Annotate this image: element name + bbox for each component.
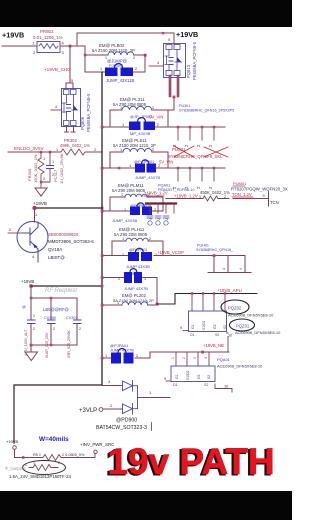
small caps under PQA01 [147,216,169,218]
svg-text:PR802: PR802 [40,29,54,34]
highlight ellipse around alt resistor [23,461,66,475]
svg-text:2: 2 [52,173,54,177]
svg-text:D1: D1 [190,333,195,337]
svg-text:+19VB_1.2V: +19VB_1.2V [144,191,168,196]
gate pin 4 stub PQ806 [51,109,61,111]
svg-text:ENLDO_3V5V: ENLDO_3V5V [14,146,45,151]
resistor PR802 0.01_1206_1% (4-terminal sense) [33,29,65,55]
junction on bus row B [101,126,104,129]
wire row A right vertical [133,55,145,72]
wire to +19VB_APU rail [157,294,257,305]
capacitor PC317 1U_0402_25V6K (vertical) [47,152,65,184]
svg-text:PU301: PU301 [179,104,190,108]
junction +19VB caps [29,284,32,287]
svg-text:S2: S2 [207,375,211,379]
svg-text:19v PATH: 19v PATH [108,441,275,482]
junction [40,151,43,154]
resistor R5 0.005_5% (sense, top) [33,453,91,461]
dual MOSFET box 2 PQA01 ACE6906 [164,366,232,392]
svg-text:PR300: PR300 [27,168,32,181]
svg-text:1: 1 [122,237,124,241]
svg-text:JUMP_43X3B: JUMP_43X3B [112,218,137,223]
svg-text:X5R_025_25V6K: X5R_025_25V6K [67,330,71,358]
inductor PLB02 5A Z150 20M 1210_2P [92,43,145,60]
svg-text:+19VB: +19VB [21,279,34,284]
svg-text:1: 1 [122,253,124,257]
inductor PL202 5A Z150 20M 1210_2P (row G) [102,293,157,305]
svg-text:ACE6906_DFN5X6E8-10: ACE6906_DFN5X6E8-10 [235,330,281,335]
svg-text:5A Z90 20M 0805: 5A Z90 20M 0805 [114,232,148,237]
svg-text:+19VB: +19VB [33,201,47,206]
pin stubs into FET box 1 [192,294,225,312]
svg-text:SY8368RHC_QFN16_: SY8368RHC_QFN16_ [196,248,234,252]
svg-text:S2: S2 [223,325,227,329]
svg-text:CV398: CV398 [44,316,56,320]
wire to +INV_PWR_SRC [87,454,95,458]
gate pin 4 stub PQ813 [149,65,163,67]
diode PD900-B (BAT54CW) [123,404,133,415]
junction [33,206,36,209]
junction [49,151,52,154]
svg-text:2: 2 [152,106,154,110]
row B: wire box [102,110,225,127]
wire to ground [41,182,50,188]
svg-text:G2: G2 [197,374,201,379]
svg-text:…: … [219,352,223,357]
wire +19VB into PR802 [2,45,37,47]
svg-text:1: 1 [35,213,37,217]
svg-text:JUMP_43X7B: JUMP_43X7B [135,175,160,180]
node junction at x70 (+19VB_CHG tap) [69,45,72,48]
svg-text:9: 9 [263,194,265,198]
svg-text:PQA01: PQA01 [217,357,231,362]
svg-text:PUM01: PUM01 [233,181,247,186]
svg-text:+19VB_APU: +19VB_APU [217,288,242,293]
svg-text:2: 2 [157,123,159,127]
svg-text:5A Z90 20M 0805: 5A Z90 20M 0805 [112,188,146,193]
svg-text:1: 1 [117,301,119,305]
main vertical bus [101,72,103,385]
svg-text:RT8207PGQW_WQFN20_3X: RT8207PGQW_WQFN20_3X [231,187,288,192]
svg-text:JUMP 43X7B: JUMP 43X7B [124,286,148,291]
svg-text:4: 4 [55,105,57,109]
svg-text:499K_0402_1%: 499K_0402_1% [60,143,90,148]
svg-text:CV397: CV397 [66,316,78,320]
svg-text:2: 2 [118,277,120,281]
svg-text:2: 2 [53,327,55,331]
svg-text:1: 1 [124,208,126,212]
svg-text:ACE6906_DFN5X6E8-10: ACE6906_DFN5X6E8-10 [217,364,263,369]
svg-text:SB0000099920: SB0000099920 [48,232,79,237]
svg-text:4: 4 [157,61,159,65]
junction on bus row E [101,254,104,257]
junction [201,351,204,354]
svg-text:PQA01: PQA01 [158,184,170,188]
dual MOSFET box 1 (battery FETs) [180,311,232,352]
capacitor CV399 [22,305,35,356]
svg-text:®_footprint: ®_footprint [5,466,26,471]
svg-text:PQZ01: PQZ01 [236,324,250,329]
svg-text:+19VB: +19VB [6,439,18,444]
svg-text:9: 9 [180,326,182,330]
5V rail stubs row C [178,168,214,181]
svg-text:+3VLP: +3VLP [79,408,97,414]
svg-text:G1: G1 [191,324,195,329]
svg-text:QV18A: QV18A [48,247,62,252]
junctions on caps rail [30,297,33,300]
ground symbol [35,188,47,196]
ground symbol (caps) [25,352,38,361]
svg-text:1: 1 [33,314,35,318]
annotation 19v PATH (big red) [106,441,275,483]
svg-text:4: 4 [222,268,226,270]
junction on bus row F [101,276,104,279]
junction [22,456,25,459]
svg-text:1: 1 [120,148,122,152]
pin stubs below PQA01 rail [150,203,174,213]
svg-text:PQ806: PQ806 [80,116,85,130]
svg-text:JUMP_43X11B: JUMP_43X11B [106,78,135,83]
jumper PJPH01 JUMP 43X3B [122,247,157,269]
svg-text:1: 1 [43,157,45,161]
svg-text:TCN: TCN [270,200,279,205]
svg-text:+19VB_CHG: +19VB_CHG [44,67,71,72]
wire row A left vertical [85,46,108,72]
svg-text:PE606BA_PCFNB-5: PE606BA_PCFNB-5 [86,93,91,132]
svg-text:ACE6908_DFN5X6E8-10: ACE6908_DFN5X6E8-10 [228,313,274,318]
svg-text:2 0.0805_5%: 2 0.0805_5% [62,453,85,457]
svg-text:PE606BA_PCFN8-5: PE606BA_PCFN8-5 [192,41,197,80]
inductor PL511 5A Z150 20M 1210_2P [113,138,156,152]
svg-text:1.5A_24V_SMD1612P150TF-24: 1.5A_24V_SMD1612P150TF-24 [9,474,71,479]
PQ813 bottom pads [170,76,178,96]
svg-text:+19VB_NB: +19VB_NB [203,343,224,348]
transistor PQ813 PE606BA_PCFN8-5 [164,41,198,80]
svg-text:1: 1 [144,277,146,281]
svg-text:10: 10 [228,334,232,338]
svg-text:MP_43X3B: MP_43X3B [130,131,151,136]
row D: wire box [102,197,163,211]
top letterbox bar [0,0,292,27]
highlight ellipse PQZ01 [230,319,282,335]
svg-text:2: 2 [182,357,186,359]
svg-text:RF Request: RF Request [45,288,77,294]
svg-text:+19VB_1.2V: +19VB_1.2V [174,194,198,199]
svg-text:2: 2 [43,177,45,181]
svg-text:S2: S2 [204,383,208,387]
caps feed rail [31,286,77,320]
svg-text:5: 5 [168,38,170,42]
row F jumper feed wire [102,278,157,305]
jumper JP301 [122,114,159,136]
bottom letterbox bar [0,491,292,520]
wire +19VB_NB rail [135,352,229,358]
jumper PJP211 JUMP_43X7B [118,269,148,291]
junction on bus row D [101,210,104,213]
MAIN SCHEMATIC [2,29,174,262]
5V rail stubs row B [178,127,214,140]
svg-text:4: 4 [239,268,243,270]
svg-text:2: 2 [79,327,81,331]
junction row A right [144,54,147,57]
resistor PR300 150K_0402_1% (vertical) [27,152,45,183]
wire PQ813 down to 5V rail [168,98,174,110]
svg-text:2: 2 [9,228,11,232]
wire +19VB row to bus (lower) [31,285,102,287]
jumper JP501 JUMP_43X7B [129,159,160,180]
capacitor CV398 [44,316,56,358]
junction [40,181,43,184]
svg-text:SY8368CRHC_QFN9-6_SKL: SY8368CRHC_QFN9-6_SKL [168,154,223,159]
controller PUM01 RT8207PGQW [231,181,288,206]
svg-text:1: 1 [122,123,124,127]
svg-text:5V_VIN: 5V_VIN [159,160,173,165]
svg-text:2: 2 [133,56,135,60]
wire PR802 out to +19VB rail [60,33,174,46]
row E: wire box [102,241,163,256]
svg-text:LB0@@RF@: LB0@@RF@ [43,307,69,312]
svg-text:S1/D2: S1/D2 [186,370,190,380]
jumper PJPA01 JUMP 43X7B (row H) [105,343,138,364]
PQ806 bottom pads [65,126,76,132]
svg-text:2: 2 [94,148,96,152]
svg-text:1U_0402_25V6K: 1U_0402_25V6K [59,153,64,184]
junction row G out [156,303,159,306]
svg-text:2: 2 [149,237,151,241]
junction on bus row C [101,167,104,170]
svg-text:2: 2 [58,461,60,465]
wire +19VB row to bus [36,207,102,209]
svg-text:1: 1 [121,193,123,197]
svg-text:S1/D2: S1/D2 [202,320,206,330]
wire bus bottom to diodes [102,385,122,387]
big route: bus to bottom-left terminal [14,385,102,443]
svg-text:2: 2 [158,164,160,168]
svg-text:9: 9 [164,377,166,381]
diode PD900-A (BAT54CW) [123,381,133,392]
transistor PQ806 PE606BA_PCFNB-5 (charger MOSFET) [62,89,92,133]
jumper JPM01 JUMP_43X3B [112,203,156,223]
svg-text:TON_1.2V: TON_1.2V [232,192,252,197]
svg-text:0.01_1206_1%: 0.01_1206_1% [33,35,63,40]
svg-text:5: 5 [71,79,73,83]
row C: wire box [102,152,225,168]
svg-text:W=40mils: W=40mils [39,436,69,443]
junction below PQ813 [173,96,176,99]
svg-text:@: @ [22,305,26,309]
svg-text:2: 2 [136,354,138,358]
svg-text:+19VB: +19VB [2,31,24,40]
inductor PLM11 5A Z90 20M 0805 [112,183,150,197]
svg-text:1: 1 [129,164,131,168]
svg-text:2: 2 [33,327,35,331]
svg-text:5V_VIN: 5V_VIN [149,115,163,120]
svg-text:4: 4 [204,357,208,359]
junction row A left [84,54,87,57]
resistor 450K_0402_1% [166,190,230,201]
svg-text:S2: S2 [215,333,219,337]
svg-text:MMDT3906_SOT363-6: MMDT3906_SOT363-6 [48,239,94,244]
svg-text:2: 2 [135,67,137,71]
wire +19VB_CHG down to PQ806 [66,46,73,89]
crossed-out regulator PU801 SY8368CRHC (red) [168,146,228,159]
capacitor CV397 [66,316,81,358]
inductor PLH11 5A Z90 20M 0805 [114,227,151,241]
svg-text:JUMP 43X3B: JUMP 43X3B [126,264,150,269]
wire bus to row H jumper [102,357,111,359]
svg-text:4: 4 [32,255,34,259]
junction on bus row G [101,304,104,307]
junction on bus row H [101,357,104,360]
svg-text:PUH01: PUH01 [197,244,209,248]
caps ground rail [31,345,77,351]
svg-text:PQ813: PQ813 [186,64,191,78]
thick 1.2V feed wire [146,202,176,204]
svg-text:BAT54CW_SOT323-3: BAT54CW_SOT323-3 [96,425,147,431]
svg-text:D1: D1 [173,383,178,387]
svg-text:LBIST@: LBIST@ [48,255,65,260]
svg-text:150K_0402_1%: 150K_0402_1% [33,154,38,183]
inductor PL311 5A Z90 20M 0805 [113,97,154,110]
svg-text:@PD900: @PD900 [116,418,137,424]
svg-text:3: 3 [193,357,197,359]
junctions ground rail [30,344,33,347]
svg-text:1: 1 [171,357,175,359]
svg-text:SY8368BRHC_QFN16_2P5X2P5: SY8368BRHC_QFN16_2P5X2P5 [179,109,234,113]
svg-text:10: 10 [224,385,228,389]
svg-text:R5 1: R5 1 [33,453,41,457]
common cathode wire [133,386,138,409]
svg-text:G2: G2 [213,324,217,329]
svg-text:1: 1 [56,148,58,152]
svg-text:+19VB_VCOP: +19VB_VCOP [157,250,184,255]
jumper PJPB01 JUMP_43X11B [100,59,137,84]
svg-text:1: 1 [105,354,107,358]
svg-text:2: 2 [152,148,154,152]
pin stubs into FET box 2 [176,352,209,366]
resistor PR5xx (alt, inside ellipse) [25,461,60,471]
svg-text:PQZ02: PQZ02 [228,306,242,311]
right parallel RC box [154,254,251,272]
wire down to transistor [34,210,36,222]
svg-text:1: 1 [100,67,102,71]
wire ENLDO_3V5V [8,151,57,153]
highlight ellipse PQZ02 [221,300,274,318]
transistor QV18A MMDT3906 (PNP pair) [8,213,94,262]
svg-text:2: 2 [154,208,156,212]
svg-text:G1: G1 [175,374,179,379]
svg-text:1: 1 [52,160,54,164]
resistor PR302 499K_0402_1% [56,138,102,155]
svg-text:+19VB: +19VB [176,30,198,39]
